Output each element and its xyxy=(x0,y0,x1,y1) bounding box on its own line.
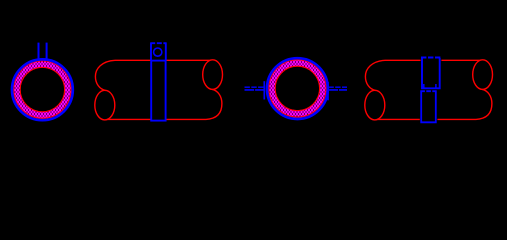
valve bonnet square (blue) xyxy=(151,43,166,60)
valve upper box top edge (dashed blue) xyxy=(421,57,441,59)
pipe right end arc (red) xyxy=(476,89,492,119)
left flange tangent line (blue) xyxy=(263,81,265,99)
valve lower box top edge (dashed blue) xyxy=(420,90,436,92)
pipe outer circle (blue) xyxy=(267,58,328,119)
valve upper box inner stub left xyxy=(423,84,425,88)
pipe outer circle (blue) xyxy=(12,59,73,120)
bonnet square top edge (dashed blue) xyxy=(150,42,166,44)
valve upper box inner stub right xyxy=(435,84,437,88)
insulation inner circle (red) xyxy=(20,67,64,111)
left tap upper line (dashed blue) xyxy=(245,86,265,88)
valve lower box (blue) xyxy=(421,92,436,123)
left tap lower line (blue) xyxy=(245,89,265,91)
valve body rectangle (blue) xyxy=(151,61,165,121)
pipe bottom line (red) xyxy=(378,118,477,120)
right tap lower line (blue) xyxy=(328,89,347,91)
stem line right xyxy=(46,43,48,61)
right flange tangent line (blue) xyxy=(327,82,329,100)
pipe right end arc (red) xyxy=(206,89,222,119)
insulation outer circle (red) xyxy=(14,61,71,118)
pipe bottom line (red) xyxy=(108,118,207,120)
pipe right end ellipse (red) xyxy=(473,60,493,90)
insulation outer circle (red) xyxy=(269,60,326,117)
bonnet circle (blue) xyxy=(154,48,162,56)
stem line left xyxy=(38,43,40,61)
insulation hatch annulus xyxy=(13,60,72,119)
pipe left end arc (red) xyxy=(95,60,115,90)
pipe right end ellipse (red) xyxy=(203,60,223,90)
insulation hatch annulus xyxy=(268,59,327,118)
valve upper box (blue) xyxy=(422,58,440,88)
insulation inner circle (red) xyxy=(275,66,319,110)
pipe top line (red) xyxy=(385,59,480,61)
pipe top line (red) xyxy=(115,59,210,61)
insulation hatch annulus (symbol 1) xyxy=(13,60,72,119)
insulation hatch annulus (symbol 3) xyxy=(268,59,327,118)
pipe left end ellipse (red) xyxy=(95,90,115,120)
right tap upper line (dashed blue) xyxy=(328,86,347,88)
pipe left end ellipse (red) xyxy=(365,90,385,120)
pipe left end arc (red) xyxy=(365,60,385,90)
